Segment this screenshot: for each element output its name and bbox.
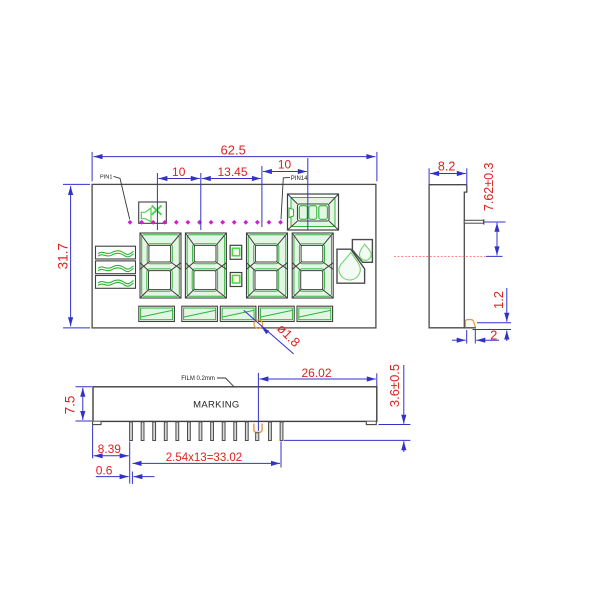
svg-text:10: 10 [172,165,186,179]
svg-text:62.5: 62.5 [221,142,246,157]
svg-text:13.45: 13.45 [217,165,247,179]
svg-text:PIN14: PIN14 [291,176,308,182]
svg-text:8.2: 8.2 [438,160,455,174]
svg-text:10: 10 [278,157,292,171]
svg-text:MARKING: MARKING [193,400,239,411]
svg-text:31.7: 31.7 [55,243,70,269]
svg-text:7.5: 7.5 [63,396,78,415]
svg-text:FILM 0.2mm: FILM 0.2mm [181,376,215,382]
svg-text:8.39: 8.39 [98,442,122,456]
svg-text:PIN1: PIN1 [100,175,112,181]
svg-text:7.62±0.3: 7.62±0.3 [482,162,496,211]
svg-text:26.02: 26.02 [301,366,331,380]
svg-text:1.2: 1.2 [491,291,506,309]
svg-text:2: 2 [490,328,497,343]
svg-text:3.6±0.5: 3.6±0.5 [387,364,402,407]
svg-text:2.54x13=33.02: 2.54x13=33.02 [166,452,242,464]
svg-text:0.6: 0.6 [96,464,113,478]
